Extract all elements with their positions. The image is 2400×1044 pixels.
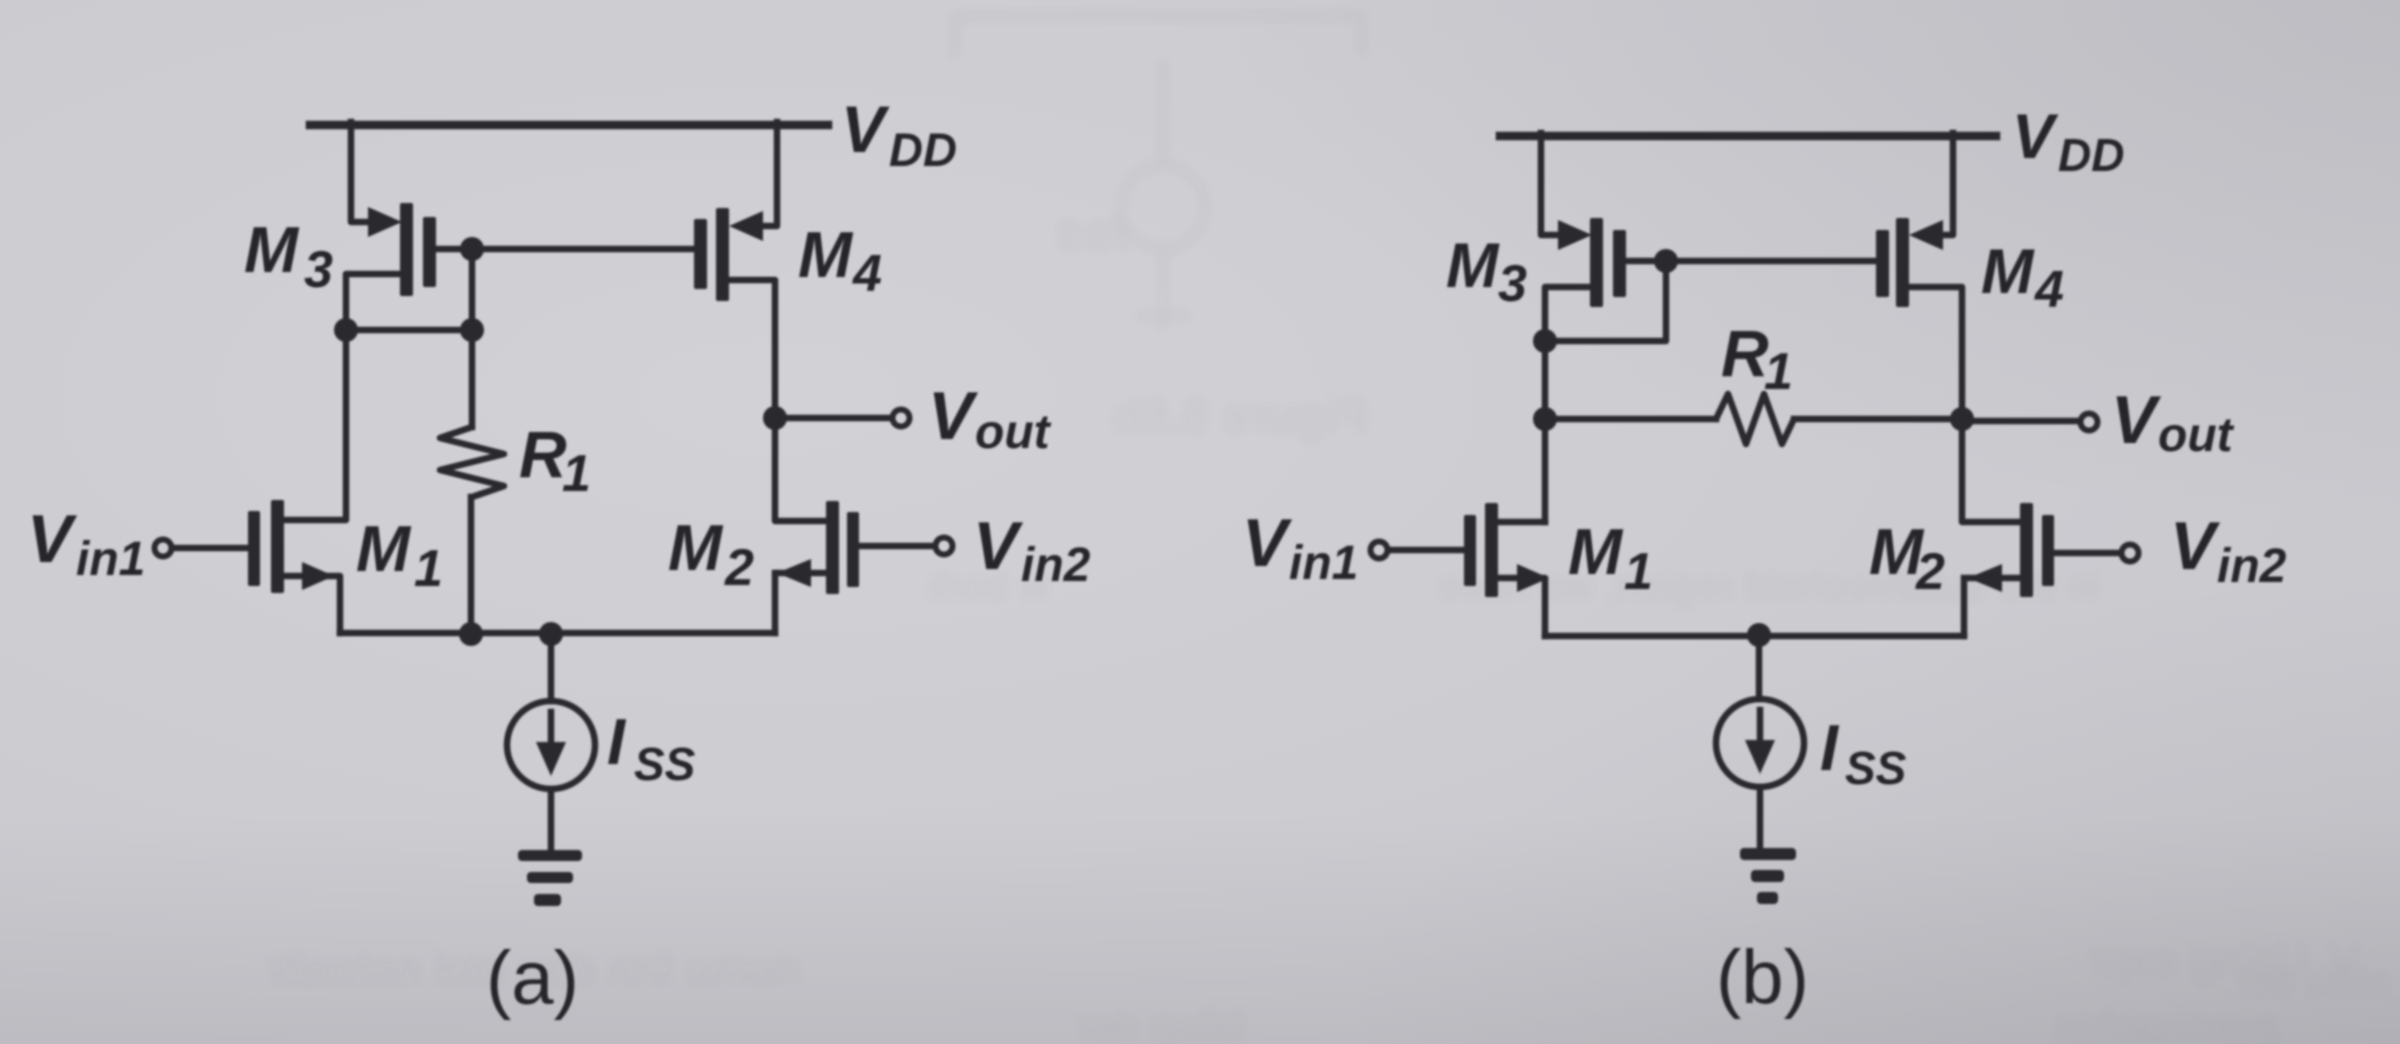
svg-text:M: M xyxy=(798,218,854,291)
svg-text:V: V xyxy=(2170,508,2221,584)
svg-text:(a): (a) xyxy=(486,936,579,1021)
svg-text:I: I xyxy=(607,705,627,778)
transistor M4 (a), PMOS xyxy=(694,122,777,418)
node gate junction dot (b) xyxy=(1654,249,1678,273)
wire VDD rail (b) xyxy=(1500,132,1996,141)
svg-text:M: M xyxy=(668,511,724,584)
svg-text:in1: in1 xyxy=(1289,537,1358,590)
svg-text:1: 1 xyxy=(414,540,443,598)
svg-text:DD: DD xyxy=(889,123,957,176)
svg-text:4: 4 xyxy=(852,245,882,303)
label Vout (b) xyxy=(2111,382,2235,462)
resistor R1 (a) xyxy=(440,330,504,633)
wire gate bus M3-M4 (b) xyxy=(1666,258,1876,265)
label M4 (a) xyxy=(798,218,882,303)
svg-text:4: 4 xyxy=(2034,261,2064,319)
svg-text:in2: in2 xyxy=(2217,540,2287,593)
transistor M2 (b), NMOS xyxy=(1962,419,2120,636)
svg-text:bilug der: bilug der xyxy=(1076,1001,1245,1044)
current source Iss (a) xyxy=(507,633,595,851)
wire Vout lead (a) xyxy=(775,415,891,422)
wire gate bus M3-M4 (a) xyxy=(472,246,694,253)
label M4 (b) xyxy=(1981,237,2064,319)
svg-text:M: M xyxy=(356,512,412,585)
ground symbol (b) xyxy=(1740,848,1796,904)
svg-text:1: 1 xyxy=(1624,543,1653,601)
svg-text:V: V xyxy=(841,92,890,166)
svg-text:DD: DD xyxy=(2058,129,2124,181)
svg-text:M: M xyxy=(1446,231,1500,301)
svg-text:2: 2 xyxy=(1915,543,1945,601)
label R1 (a) xyxy=(519,417,591,503)
node M3 drain dot (a) xyxy=(334,318,358,342)
node R1 top dot (a) xyxy=(460,318,484,342)
svg-text:1: 1 xyxy=(562,445,591,503)
wire tail rail (b) xyxy=(1545,633,1964,640)
svg-text:out: out xyxy=(2158,409,2235,462)
power net VDD label (a) xyxy=(841,92,957,176)
input terminal Vin1 (a) xyxy=(155,540,172,557)
node M3 drain dot (b) xyxy=(1533,329,1557,353)
wire VDD rail (a) xyxy=(310,121,828,130)
svg-text:3: 3 xyxy=(1498,255,1527,313)
wire gate-to-drain (a) xyxy=(469,249,476,330)
svg-text:V: V xyxy=(973,508,1024,584)
svg-text:R: R xyxy=(1721,316,1769,390)
label R1 (b) xyxy=(1721,316,1793,401)
svg-text:M: M xyxy=(1568,515,1624,588)
node R1 left dot (b) xyxy=(1533,407,1557,431)
svg-text:in1: in1 xyxy=(76,533,145,586)
input terminal Vin1 (b) xyxy=(1371,542,1388,559)
svg-text:in2: in2 xyxy=(1021,539,1091,592)
transistor M3 (b), PMOS diode-connected xyxy=(1541,133,1666,341)
label Iss (a) xyxy=(607,705,696,790)
label Vin1 (b) xyxy=(1242,505,1358,590)
label Vin2 (b) xyxy=(2170,508,2287,593)
label Vin1 (a) xyxy=(27,501,145,586)
svg-text:M: M xyxy=(1981,237,2035,307)
input terminal Vin2 (b) xyxy=(2122,545,2139,562)
svg-text:SS: SS xyxy=(1845,742,1907,794)
label Iss (b) xyxy=(1820,711,1907,794)
wire tail rail (a) xyxy=(340,630,775,637)
svg-text:SS: SS xyxy=(634,738,696,790)
transistor M1 (b), NMOS xyxy=(1389,503,1549,636)
node tail junction dot (a) xyxy=(539,622,563,646)
node Vout dot (b) xyxy=(1950,407,1974,431)
transistor M3 (a), PMOS diode-connected xyxy=(346,122,472,330)
output terminal Vout (b) xyxy=(2081,414,2098,431)
svg-text:I: I xyxy=(1820,711,1840,784)
power net VDD label (b) xyxy=(2012,102,2124,181)
wire Vout lead (b) xyxy=(1962,418,2079,425)
svg-text:out: out xyxy=(975,406,1052,459)
svg-text:V: V xyxy=(27,501,78,577)
svg-text:nicht der: nicht der xyxy=(2237,960,2390,1004)
node R1 bottom dot (a) xyxy=(459,622,483,646)
label M3 (a) xyxy=(244,213,333,299)
svg-text:1: 1 xyxy=(1764,343,1793,401)
svg-text:Figure 5.6b: Figure 5.6b xyxy=(1112,390,1368,443)
wire gate-to-drain (b) xyxy=(1545,261,1666,341)
resistor R1 (b) xyxy=(1545,394,1962,444)
svg-text:3: 3 xyxy=(304,241,333,299)
label M1 (a) xyxy=(356,512,443,598)
transistor M2 (a), NMOS xyxy=(775,418,934,633)
svg-text:V: V xyxy=(2012,102,2059,172)
output terminal Vout (a) xyxy=(893,410,910,427)
label M2 (b) xyxy=(1869,515,1945,601)
node tail junction dot (b) xyxy=(1747,623,1771,647)
svg-text:V: V xyxy=(2111,382,2162,458)
transistor M1 (a), NMOS xyxy=(172,330,346,633)
node gate junction dot (a) xyxy=(460,237,484,261)
label Vin2 (a) xyxy=(973,508,1091,592)
node Vout dot (a) xyxy=(763,406,787,430)
current source Iss (b) xyxy=(1716,635,1804,849)
svg-text:zuerinachin: zuerinachin xyxy=(2055,1003,2280,1044)
svg-text:Iss: Iss xyxy=(1056,204,1128,262)
input terminal Vin2 (a) xyxy=(936,538,953,555)
label Vout (a) xyxy=(928,378,1052,459)
label M3 (b) xyxy=(1446,231,1527,313)
svg-text:2: 2 xyxy=(724,539,754,597)
ground symbol (a) xyxy=(518,850,582,906)
transistor M4 (b), PMOS xyxy=(1876,133,1962,419)
svg-text:M: M xyxy=(244,213,300,286)
wire drain cross link (a) xyxy=(346,327,472,334)
label M1 (b) xyxy=(1568,515,1653,601)
svg-text:V: V xyxy=(1242,505,1293,581)
wire left drain vertical (b) xyxy=(1542,341,1549,522)
label M2 (a) xyxy=(668,511,754,597)
svg-text:V: V xyxy=(928,378,979,454)
svg-text:R: R xyxy=(519,417,567,491)
svg-text:(b): (b) xyxy=(1716,935,1809,1020)
